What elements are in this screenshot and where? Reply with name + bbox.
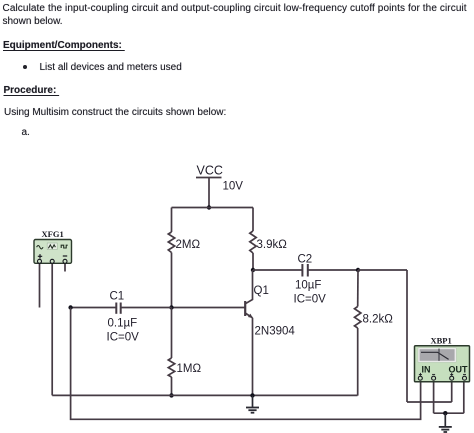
wire 1M lower	[171, 377, 173, 395]
wire left branch lower	[171, 253, 173, 308]
svg-text:Q1: Q1	[254, 285, 269, 297]
wire C2 right	[308, 269, 358, 271]
transistor Q1 2N3904	[245, 270, 295, 395]
svg-text:IN: IN	[422, 365, 431, 375]
wire OUT+ vertical	[451, 381, 453, 403]
wire 1M upper	[171, 308, 173, 359]
svg-text:C1: C1	[110, 291, 125, 303]
wire right branch upper	[252, 208, 254, 232]
document text	[3, 3, 467, 14]
svg-text:2N3904: 2N3904	[255, 326, 296, 338]
wire C1 left	[71, 307, 116, 309]
wire OUT- drop	[463, 381, 465, 414]
node base junction	[169, 305, 173, 309]
node output junction	[356, 268, 360, 272]
wire ground rail	[52, 394, 357, 396]
svg-text:10V: 10V	[223, 181, 244, 193]
wire IN- to OUT-	[434, 412, 464, 414]
wire XFG minus stub	[64, 264, 66, 272]
node emitter ground junction	[250, 393, 254, 397]
node 1M ground junction	[169, 393, 173, 397]
wire 8.2k upper	[357, 270, 359, 307]
power VCC V1	[196, 164, 243, 208]
svg-text:IC=0V: IC=0V	[107, 332, 140, 344]
capacitor C1	[107, 291, 140, 344]
svg-text:XFG1: XFG1	[42, 229, 64, 239]
instrument XBP1 bode plotter	[415, 336, 470, 382]
node VCC junction	[207, 205, 211, 209]
wire left branch upper	[171, 208, 173, 233]
wire C1 right	[121, 307, 172, 309]
wire C2 left	[253, 269, 302, 271]
resistor R2 3.9k	[250, 231, 287, 253]
wire XFG common drop	[51, 264, 53, 396]
wire base	[172, 307, 246, 309]
ground GND1	[246, 395, 259, 412]
svg-text:2MΩ: 2MΩ	[176, 239, 201, 251]
ground GND2	[439, 413, 452, 432]
wire top rail	[172, 207, 254, 209]
svg-text:3.9kΩ: 3.9kΩ	[257, 239, 288, 251]
svg-text:10µF: 10µF	[295, 280, 321, 292]
capacitor C2	[294, 254, 327, 306]
node input junction	[68, 305, 72, 309]
instrument XFG1 function generator	[34, 229, 72, 263]
wire input to bode IN	[71, 308, 421, 420]
wire 8.2k lower	[357, 328, 359, 395]
wire right drop	[406, 270, 408, 402]
svg-text:8.2kΩ: 8.2kΩ	[363, 314, 394, 326]
node collector junction	[251, 268, 255, 272]
resistor R1 2M	[168, 232, 200, 253]
wire collector node	[252, 253, 254, 270]
svg-text:C2: C2	[298, 254, 313, 266]
resistor R3 1M	[168, 358, 201, 377]
wire XFG plus drop	[39, 264, 41, 308]
wire output to right	[358, 269, 407, 271]
svg-text:XBP1: XBP1	[431, 336, 452, 346]
svg-text:VCC: VCC	[197, 164, 223, 178]
svg-text:0.1µF: 0.1µF	[108, 318, 138, 330]
node bode ground junction	[443, 411, 447, 415]
wire to OUT+	[407, 401, 452, 403]
svg-text:1MΩ: 1MΩ	[177, 363, 202, 375]
svg-text:IC=0V: IC=0V	[294, 294, 327, 306]
resistor R4 8.2k	[355, 307, 394, 329]
wire IN- drop	[433, 381, 435, 414]
